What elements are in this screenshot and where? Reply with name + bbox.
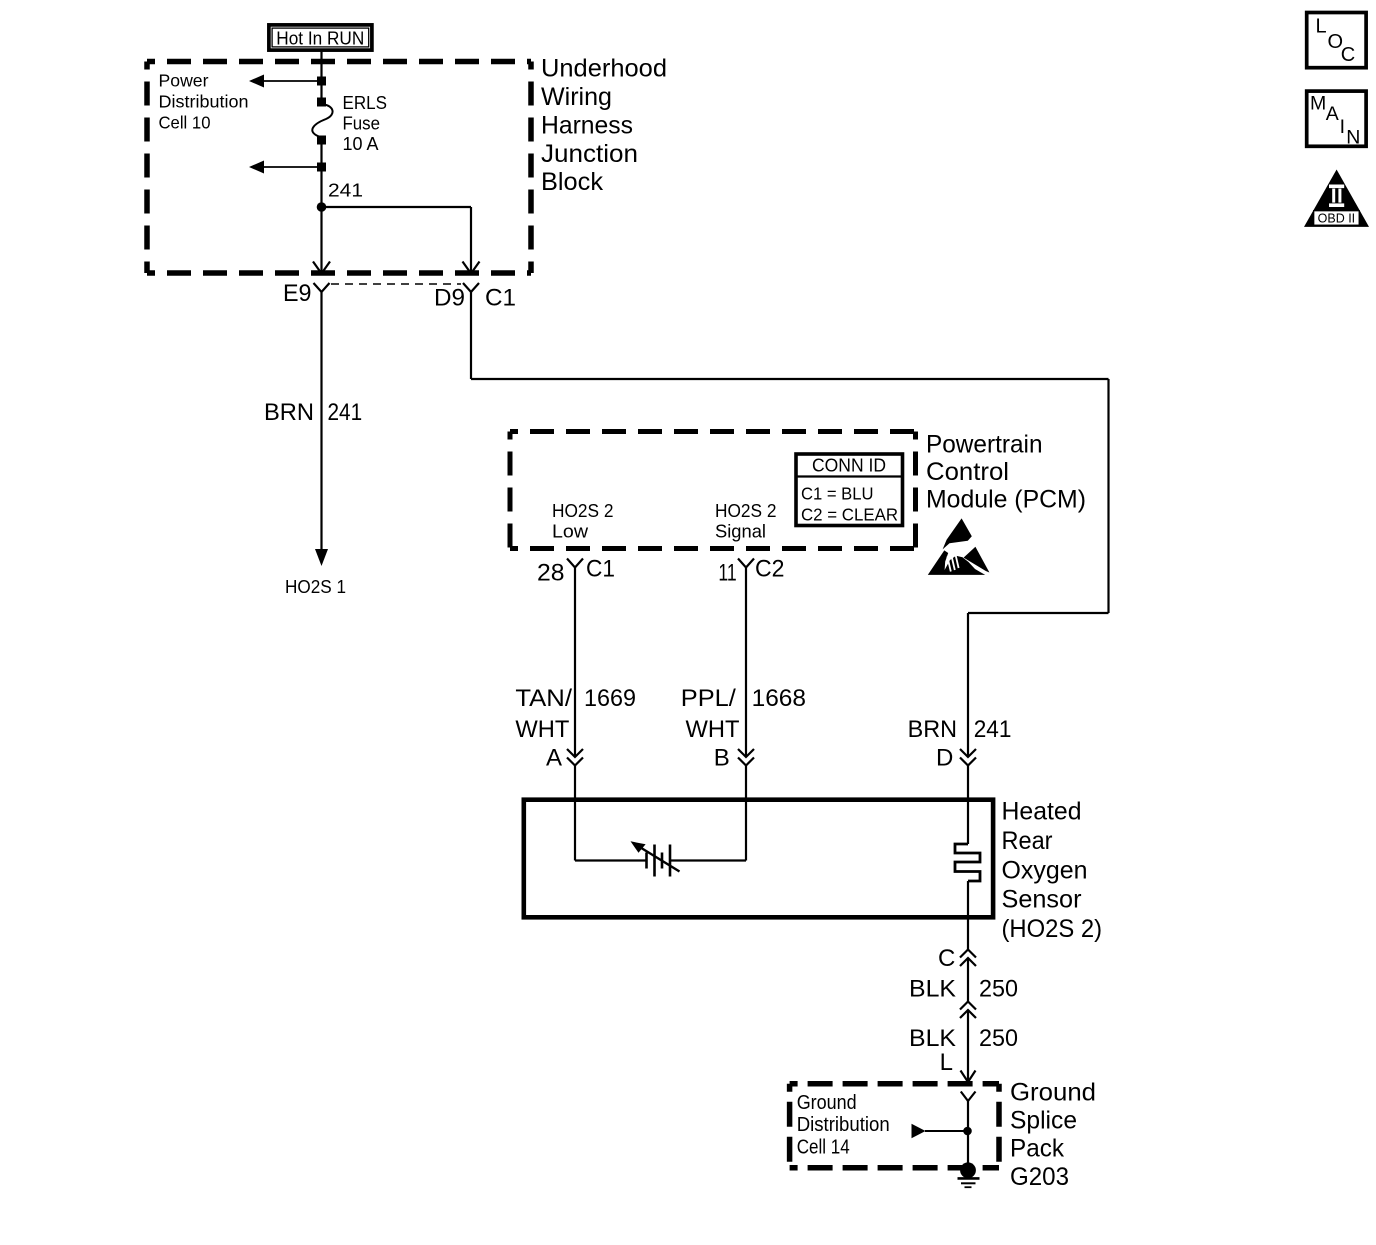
svg-text:G203: G203	[1010, 1163, 1069, 1191]
component box Heated Rear Oxygen Sensor HO2S 2	[524, 800, 993, 918]
connector pin 28 C1 (female Y)	[567, 559, 583, 568]
wire B into sensor box	[745, 766, 747, 798]
icon LOC box	[1307, 13, 1366, 68]
wire branch arrow (to power distribution, lower)	[249, 161, 326, 174]
svg-text:OBD II: OBD II	[1318, 211, 1356, 225]
svg-text:C1: C1	[586, 556, 615, 583]
wire A into sensor box	[574, 766, 576, 798]
connector pin 11 C2 (female Y)	[738, 559, 754, 568]
arrow to HO2S 1 (solid arrowhead)	[315, 549, 328, 566]
svg-text:Block: Block	[541, 168, 603, 196]
wire from D9 to PCM right side (BRN 241 feed)	[471, 292, 1109, 757]
wire PPL/WHT 1668 from pin 11	[745, 568, 747, 757]
svg-text:WHT: WHT	[686, 716, 740, 743]
wire branch to ground distribution (triangle arrow)	[912, 1124, 968, 1139]
svg-text:CONN ID: CONN ID	[812, 456, 886, 476]
svg-text:D9: D9	[434, 285, 465, 312]
svg-text:241: 241	[328, 181, 363, 201]
wire junction to E9 (down, open arrow into box edge)	[313, 207, 330, 274]
svg-text:Sensor: Sensor	[1002, 886, 1082, 914]
node junction dot at splice	[963, 1127, 972, 1136]
fuse ERLS 10A	[312, 98, 332, 145]
label Powertrain Control Module (PCM)	[926, 431, 1086, 514]
wire L to ground	[967, 1101, 969, 1164]
svg-text:E9: E9	[283, 280, 312, 307]
svg-text:Distribution: Distribution	[797, 1114, 890, 1136]
svg-text:HO2S 1: HO2S 1	[285, 577, 346, 597]
svg-text:C1: C1	[485, 285, 516, 312]
wire branch arrow (to power distribution, upper)	[249, 75, 326, 88]
svg-text:250: 250	[979, 976, 1018, 1003]
svg-text:Fuse: Fuse	[343, 114, 381, 134]
svg-text:Ground: Ground	[797, 1092, 857, 1114]
svg-text:L: L	[940, 1049, 953, 1076]
svg-text:Splice: Splice	[1010, 1107, 1077, 1135]
connector inline splice (double chevron up)	[960, 1002, 976, 1019]
connector inline B (double chevron)	[738, 749, 754, 766]
icon OBD II triangle	[1304, 170, 1369, 227]
svg-text:C2: C2	[755, 556, 785, 583]
svg-text:Power: Power	[159, 71, 209, 91]
svg-text:28: 28	[537, 560, 565, 587]
svg-text:HO2S 2: HO2S 2	[715, 501, 777, 521]
svg-text:D: D	[936, 745, 953, 772]
svg-text:BRN: BRN	[264, 399, 314, 426]
svg-text:Underhood: Underhood	[541, 55, 667, 83]
svg-text:Cell 14: Cell 14	[797, 1136, 850, 1158]
connector L (female Y inside ground box)	[961, 1092, 976, 1102]
svg-text:10 A: 10 A	[343, 134, 379, 154]
svg-text:PPL/: PPL/	[681, 685, 736, 712]
connector tie line (dashed) E9 to D9	[331, 283, 461, 285]
node Hot In RUN (power label box)	[269, 25, 372, 50]
label Underhood Wiring Harness Junction Block	[541, 55, 667, 197]
label HO2S 2 Signal (pin function)	[715, 501, 777, 542]
svg-text:L: L	[1316, 16, 1327, 38]
wire BLK 250 (lower)	[967, 1010, 969, 1082]
table CONN ID	[796, 454, 903, 526]
svg-text:I: I	[1340, 116, 1345, 138]
svg-text:250: 250	[979, 1025, 1018, 1052]
svg-text:C2 = CLEAR: C2 = CLEAR	[801, 505, 898, 525]
wire D into sensor box	[967, 766, 969, 798]
svg-text:HO2S 2: HO2S 2	[552, 501, 614, 521]
wire from Hot In RUN box into junction block	[320, 51, 322, 98]
icon MAIN box	[1307, 91, 1366, 149]
svg-text:11: 11	[718, 560, 736, 587]
svg-text:TAN/: TAN/	[515, 685, 572, 712]
wire fuse to lower branch	[320, 144, 322, 207]
svg-text:Control: Control	[926, 458, 1009, 486]
box Underhood Wiring Harness Junction Block (dashed)	[147, 62, 531, 274]
connector inline A (double chevron)	[567, 749, 583, 766]
wire junction to D9 (right then down, open arrow into box edge)	[322, 207, 480, 274]
svg-text:1668: 1668	[752, 685, 806, 712]
label HO2S 2 Low (pin function)	[552, 501, 614, 542]
svg-text:241: 241	[328, 399, 363, 426]
svg-text:ERLS: ERLS	[343, 93, 388, 113]
box Ground Splice Pack (dashed)	[790, 1084, 999, 1168]
connector D9 (female Y)	[463, 283, 479, 292]
svg-text:C1 = BLU: C1 = BLU	[801, 483, 874, 503]
wire BRN 241 from E9 down to HO2S 1	[320, 292, 322, 550]
sensing element (variable cell)	[631, 841, 680, 876]
svg-text:A: A	[546, 745, 562, 772]
wire TAN/WHT 1669 from pin 28	[574, 568, 576, 757]
label Power Distribution Cell 10	[159, 71, 249, 133]
symbol ESD sensitive device	[928, 518, 990, 575]
node junction dot circuit 241	[317, 202, 327, 212]
wire A inside sensor	[575, 797, 646, 861]
connector C (double chevron up)	[960, 950, 976, 967]
svg-text:Pack: Pack	[1010, 1135, 1064, 1163]
svg-text:BRN: BRN	[908, 716, 957, 743]
svg-text:Heated: Heated	[1002, 798, 1082, 826]
connector E9 (female Y)	[314, 283, 330, 292]
svg-text:Distribution: Distribution	[159, 91, 249, 111]
label PPL/ WHT	[681, 685, 740, 743]
svg-text:Harness: Harness	[541, 111, 633, 139]
svg-text:Hot In RUN: Hot In RUN	[276, 28, 364, 48]
arrow into ground box (open arrowhead)	[961, 1071, 976, 1083]
svg-text:Cell 10: Cell 10	[159, 112, 211, 132]
label Heated Rear Oxygen Sensor (HO2S 2)	[1002, 798, 1103, 943]
svg-text:N: N	[1346, 127, 1360, 149]
label Ground Distribution Cell 14	[797, 1092, 890, 1158]
label ERLS Fuse 10 A	[343, 93, 388, 154]
svg-text:M: M	[1310, 92, 1326, 114]
svg-text:Ground: Ground	[1010, 1079, 1096, 1107]
svg-text:Rear: Rear	[1002, 827, 1053, 855]
svg-text:B: B	[714, 745, 730, 772]
svg-text:Junction: Junction	[541, 140, 638, 168]
label TAN/ WHT	[515, 685, 572, 743]
ground G203 symbol	[958, 1162, 980, 1187]
wire element to B inside sensor	[670, 797, 746, 861]
svg-text:C: C	[938, 945, 955, 972]
svg-text:Low: Low	[552, 522, 589, 542]
svg-text:241: 241	[974, 716, 1012, 743]
svg-text:1669: 1669	[584, 685, 636, 712]
svg-text:Module (PCM): Module (PCM)	[926, 485, 1086, 513]
svg-text:(HO2S 2): (HO2S 2)	[1002, 915, 1103, 943]
svg-text:Signal: Signal	[715, 522, 766, 542]
svg-text:Wiring: Wiring	[541, 83, 612, 111]
svg-text:Oxygen: Oxygen	[1002, 856, 1088, 884]
connector inline D (double chevron)	[960, 749, 976, 766]
svg-text:C: C	[1341, 44, 1355, 66]
wire BLK 250 (upper)	[967, 958, 969, 1002]
label Ground Splice Pack G203	[1010, 1079, 1096, 1192]
module PCM box (dashed)	[510, 432, 916, 549]
heater element (square wave)	[955, 797, 980, 950]
svg-text:A: A	[1326, 103, 1339, 125]
svg-text:BLK: BLK	[909, 976, 956, 1003]
svg-text:Powertrain: Powertrain	[926, 431, 1043, 459]
svg-text:WHT: WHT	[515, 716, 569, 743]
